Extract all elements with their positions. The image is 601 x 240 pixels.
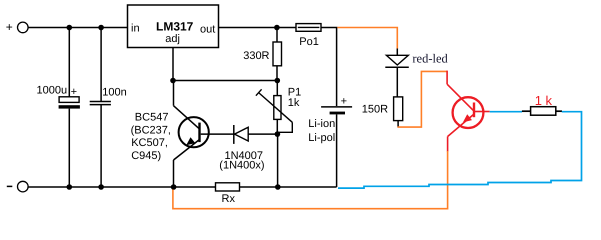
node junction dot C1 top	[67, 25, 73, 31]
svg-text:1k: 1k	[288, 97, 300, 109]
wire cyan Q2 base to 1k	[490, 111, 522, 113]
resistor R1 330R	[243, 42, 281, 66]
svg-text:LM317: LM317	[156, 20, 194, 34]
wire 330R top lead	[276, 28, 278, 43]
svg-text:100n: 100n	[102, 86, 126, 98]
wire bottom rail right section	[240, 186, 337, 188]
node junction dot C2 top	[98, 25, 104, 31]
node junction dot 330R top	[274, 25, 280, 31]
diode D1 1N4007	[234, 125, 248, 144]
wire orange Po1 node to LED	[337, 28, 397, 49]
svg-text:(BC237,: (BC237,	[131, 124, 171, 136]
wire orange 150R to Q2 collector	[397, 71, 447, 127]
LED D2 red-led	[385, 55, 409, 67]
wire LED cathode to 150R	[396, 67, 398, 97]
svg-text:in: in	[131, 23, 140, 35]
node junction dot P1 bottom / diode	[275, 131, 281, 137]
capacitor C2 100n	[90, 86, 127, 104]
svg-text:KC507,: KC507,	[131, 137, 168, 149]
wire diode anode to P1 node	[248, 133, 277, 135]
wire LM317 out to Po1	[219, 27, 297, 29]
resistor Rx	[216, 183, 240, 205]
wire LED anode stub	[396, 49, 398, 56]
node junction dot adj	[170, 78, 176, 84]
wire adj rail	[173, 80, 277, 82]
terminal + (input plus)	[6, 20, 28, 34]
wire P1 node down to bottom rail	[277, 134, 279, 187]
wire cyan 1k to battery negative return	[338, 112, 582, 188]
wire orange Q2 emitter to Rx node	[173, 151, 448, 209]
wire Po1 to battery corner	[321, 28, 337, 107]
wire 150R bottom stub	[397, 121, 399, 128]
svg-text:BC547: BC547	[135, 112, 169, 124]
wire 100n top lead	[100, 28, 102, 102]
node junction dot C2 bottom	[98, 184, 104, 190]
label 1N4007	[219, 150, 264, 172]
resistor R3 1k	[531, 93, 556, 115]
wire LM317 adj pin down	[172, 48, 174, 81]
svg-text:1000u: 1000u	[37, 85, 68, 97]
svg-text:C945): C945)	[131, 150, 161, 162]
wire 1000u top lead	[68, 28, 70, 97]
wire BC547 collector up to adj node	[173, 81, 175, 106]
wire top rail from + terminal to LM317 in	[28, 27, 128, 29]
potentiometer P1 1k	[256, 87, 301, 133]
regulator U1 LM317	[128, 5, 219, 48]
svg-text:150R: 150R	[362, 103, 388, 115]
node junction dot bottom rail right	[275, 184, 281, 190]
capacitor C1 1000u (electrolytic)	[37, 85, 80, 109]
battery B1 Li-ion	[308, 96, 352, 144]
label BC547 alternatives	[131, 112, 171, 162]
svg-text:(1N400x): (1N400x)	[219, 160, 264, 172]
resistor R3 1k leads	[522, 110, 562, 112]
svg-text:1 k: 1 k	[535, 93, 553, 108]
node junction dot C1 bottom	[67, 184, 73, 190]
svg-text:Li-ion: Li-ion	[308, 118, 335, 130]
svg-text:adj: adj	[165, 33, 180, 45]
wire P1 top lead	[276, 81, 278, 96]
svg-text:out: out	[200, 24, 215, 36]
svg-text:Li-pol: Li-pol	[308, 132, 335, 144]
terminal - (input minus)	[7, 181, 28, 192]
node junction dot 330R bottom	[275, 78, 281, 84]
wire 1000u bottom lead	[68, 109, 70, 187]
wire BC547 base to diode cathode	[201, 133, 234, 135]
transistor Q2 (red, opto style)	[447, 71, 490, 152]
wire 100n bottom lead	[100, 105, 102, 187]
svg-text:Po1: Po1	[299, 36, 319, 48]
wire 330R bottom lead	[276, 66, 278, 81]
wire BC547 emitter down to bottom rail	[173, 160, 175, 187]
node junction dot emitter rail	[171, 184, 177, 190]
svg-text:Rx: Rx	[222, 193, 236, 205]
resistor R2 150R	[362, 97, 403, 121]
wire battery bottom lead	[336, 114, 338, 187]
potentiometer Po1	[296, 24, 321, 48]
wire bottom rail left section	[28, 186, 215, 188]
svg-text:red-led: red-led	[412, 51, 448, 65]
transistor Q1 BC547	[174, 106, 209, 160]
svg-text:330R: 330R	[243, 50, 269, 62]
wire P1 bottom lead	[276, 119, 278, 134]
svg-text:+: +	[341, 96, 347, 108]
svg-text:+: +	[6, 20, 13, 34]
